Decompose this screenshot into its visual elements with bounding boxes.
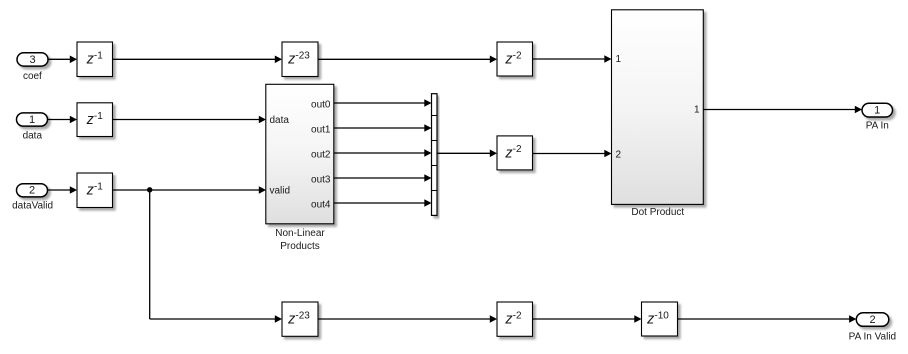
- svg-text:data: data: [270, 115, 290, 126]
- junction dot: [147, 187, 152, 192]
- wire out1 to mux: [334, 124, 432, 132]
- svg-text:2: 2: [616, 149, 622, 160]
- svg-text:dataValid: dataValid: [12, 200, 53, 211]
- svg-text:out1: out1: [311, 125, 331, 136]
- svg-text:1: 1: [616, 54, 622, 65]
- wire z2 mid to dot product port 2: [533, 150, 612, 158]
- wire mux to z2 mid: [437, 150, 497, 158]
- svg-text:coef: coef: [23, 71, 42, 82]
- wire out2 to mux: [334, 149, 432, 157]
- wire branch down: [149, 190, 151, 319]
- subsystem Non-Linear Products: [266, 84, 334, 224]
- delay Z2 top: [497, 42, 533, 76]
- wire out0 to mux: [334, 99, 432, 107]
- wire delay to subsystem data: [113, 116, 267, 124]
- svg-text:out3: out3: [311, 175, 331, 186]
- wire coef to delay: [48, 56, 77, 64]
- delay Z1 coef: [77, 42, 113, 77]
- svg-text:2: 2: [29, 185, 35, 197]
- outport 1 PA In: [862, 103, 893, 117]
- wire dot product to PA In: [703, 106, 862, 114]
- delay Z1 dataValid: [77, 173, 113, 208]
- svg-text:out4: out4: [311, 200, 331, 211]
- wire data to delay: [48, 116, 78, 124]
- svg-text:1: 1: [694, 105, 700, 116]
- inport 1 data: [17, 113, 48, 126]
- delay Z10: [642, 302, 678, 336]
- wire z2 top to dot product port 1: [533, 55, 612, 63]
- delay Z23 top: [282, 42, 318, 77]
- wire delay to subsystem valid: [113, 186, 267, 194]
- delay Z1 data: [77, 103, 113, 137]
- svg-text:1: 1: [874, 105, 880, 117]
- svg-text:PA In Valid: PA In Valid: [849, 331, 896, 342]
- wire z2 bottom to z10: [533, 315, 642, 323]
- mux vector concatenate: [432, 94, 438, 216]
- wire z10 to PA In Valid: [678, 315, 857, 323]
- outport 2 PA In Valid: [856, 313, 889, 327]
- wire delay to z23: [113, 56, 283, 64]
- svg-text:3: 3: [29, 54, 35, 66]
- svg-text:Non-Linear: Non-Linear: [275, 228, 325, 239]
- delay Z23 bottom: [282, 302, 318, 336]
- wire dataValid to delay: [48, 186, 78, 194]
- label Non-Linear Products: [275, 228, 325, 252]
- delay Z2 bottom: [497, 302, 533, 336]
- delay Z2 mid: [497, 136, 533, 170]
- wire z23 to z2 top: [318, 56, 497, 64]
- svg-text:data: data: [23, 131, 43, 142]
- svg-text:Dot Product: Dot Product: [631, 207, 684, 218]
- inport 3 coef: [17, 53, 48, 66]
- wire out3 to mux: [334, 174, 432, 182]
- svg-text:valid: valid: [270, 186, 291, 197]
- dot product block: [612, 10, 704, 205]
- inport 2 dataValid: [17, 184, 48, 197]
- wire branch to z23 bottom: [150, 315, 282, 323]
- wire out4 to mux: [334, 199, 432, 207]
- svg-text:PA In: PA In: [866, 121, 889, 132]
- svg-text:out2: out2: [311, 150, 331, 161]
- svg-text:out0: out0: [311, 100, 331, 111]
- svg-text:2: 2: [869, 314, 875, 326]
- wire z23 bottom to z2 bottom: [318, 315, 497, 323]
- svg-text:1: 1: [29, 114, 35, 126]
- svg-text:Products: Products: [280, 241, 319, 252]
